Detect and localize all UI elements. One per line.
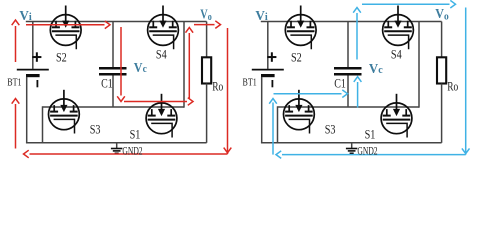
svg-text:Vc: Vc: [134, 61, 147, 76]
svg-text:Ro: Ro: [212, 79, 223, 93]
svg-text:S3: S3: [90, 122, 101, 136]
svg-text:BT1: BT1: [7, 77, 21, 88]
svg-text:S1: S1: [130, 127, 141, 141]
svg-text:S2: S2: [56, 50, 67, 64]
svg-text:S1: S1: [365, 127, 376, 141]
svg-text:GND2: GND2: [357, 143, 377, 157]
svg-text:Vi: Vi: [255, 9, 267, 24]
svg-text:Vc: Vc: [369, 62, 383, 77]
svg-text:S4: S4: [156, 47, 167, 61]
svg-text:S3: S3: [325, 122, 336, 136]
svg-text:S2: S2: [291, 50, 302, 64]
svg-text:BT1: BT1: [243, 77, 257, 88]
svg-text:C1: C1: [101, 77, 113, 91]
svg-text:Vi: Vi: [19, 9, 31, 24]
svg-text:S4: S4: [391, 47, 402, 61]
svg-text:C1: C1: [334, 76, 346, 90]
svg-text:GND2: GND2: [122, 143, 142, 157]
svg-text:Ro: Ro: [447, 79, 458, 93]
